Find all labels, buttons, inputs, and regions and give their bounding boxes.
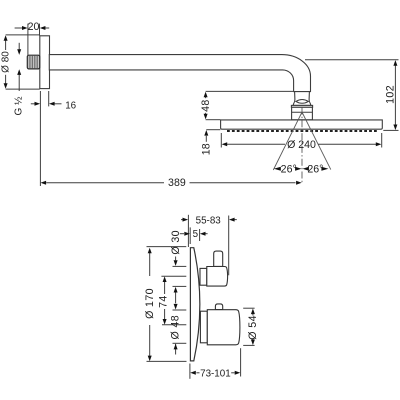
svg-text:74: 74 — [157, 295, 169, 308]
svg-text:26°: 26° — [281, 163, 297, 175]
dimension G 1/2 (thread) — [18, 43, 20, 91]
upper handle stem — [214, 251, 223, 266]
svg-text:Ø 54: Ø 54 — [247, 315, 259, 340]
svg-text:73-101: 73-101 — [200, 368, 231, 379]
dimension Ø80 (flange) — [6, 35, 40, 89]
lower handle safety knob — [215, 304, 222, 310]
svg-text:26°: 26° — [307, 163, 323, 175]
dimension 389 (arm reach) — [46, 182, 295, 184]
svg-text:18: 18 — [201, 143, 213, 155]
dimension Ø170 (plate diameter) — [147, 247, 187, 362]
svg-text:5: 5 — [193, 229, 199, 240]
svg-text:48: 48 — [200, 99, 212, 112]
spray angle 26deg left — [274, 167, 281, 171]
spray angle 26deg right — [303, 167, 309, 171]
dimension 102 (arm to head bottom) — [305, 60, 399, 131]
block split line — [292, 111, 313, 113]
dimension 16 (flange depth) — [31, 91, 62, 186]
threaded connector G1/2 — [27, 55, 39, 69]
svg-text:Ø 170: Ø 170 — [144, 288, 156, 319]
lower handle base sleeve (Ø48) — [200, 311, 207, 343]
svg-text:20: 20 — [28, 21, 40, 33]
svg-text:Ø 80: Ø 80 — [0, 51, 11, 73]
spray face nozzle dashes — [227, 130, 377, 132]
dimension 48 (joint to head top) — [206, 91, 293, 119]
ball joint cone under arm — [293, 92, 311, 106]
centerline of head — [301, 108, 303, 185]
dimension 20 (thread length) — [15, 24, 50, 55]
svg-text:Ø 30: Ø 30 — [170, 230, 182, 255]
dimension 74 (handle centers) — [161, 276, 186, 325]
svg-text:16: 16 — [65, 100, 76, 111]
svg-text:389: 389 — [168, 177, 186, 189]
svg-text:Ø 240: Ø 240 — [287, 139, 316, 151]
dimension 55-83 (top handle depth) — [181, 215, 237, 275]
dimension 18 (head height) — [206, 130, 220, 142]
dimension 5 (plate thickness) — [180, 227, 208, 244]
shower head body — [221, 120, 383, 129]
svg-text:102: 102 — [385, 85, 397, 104]
ball joint lens — [296, 100, 309, 104]
escutcheon block — [292, 107, 313, 120]
upper handle connector — [200, 268, 207, 285]
svg-text:G ½: G ½ — [13, 96, 24, 116]
dimension Ø48 (base sleeve diameter) — [173, 310, 187, 355]
upper handle body (Ø30) — [207, 267, 228, 287]
spray angle line right — [302, 113, 331, 170]
wall flange — [40, 36, 50, 89]
dimension Ø30 (upper handle diameter) — [173, 257, 187, 304]
dimension Ø54 (lower handle diameter) — [243, 308, 254, 345]
escutcheon plate (side view) — [190, 248, 199, 361]
svg-text:Ø 48: Ø 48 — [169, 315, 181, 340]
dimension Ø240 (head diameter) — [221, 133, 381, 148]
collar plate — [291, 105, 312, 107]
svg-text:55-83: 55-83 — [196, 215, 222, 226]
spray angle line left — [273, 113, 302, 171]
shower arm (horizontal bar with elbow down) — [49, 55, 310, 92]
lower handle body (Ø54) — [207, 310, 240, 345]
dimension 73-101 (bottom handle depth) — [190, 348, 241, 379]
